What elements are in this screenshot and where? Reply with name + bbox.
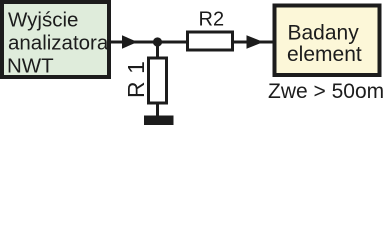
wire from node down to R1 [156,42,159,58]
wire from R1 to ground [156,103,159,117]
svg-text:Zwe > 50om: Zwe > 50om [268,80,384,103]
svg-text:R1: R1 [123,54,149,98]
svg-text:Badany: Badany [288,22,360,45]
svg-text:analizatora: analizatora [8,32,109,55]
resistor R2 [188,32,233,50]
arrow head on output wire [247,35,264,48]
load block: Badany element [275,6,380,76]
svg-text:element: element [287,43,362,66]
svg-text:NWT: NWT [7,55,54,78]
wire from source to R2 [111,41,186,44]
wire from R2 to load [234,41,273,44]
node junction dot [153,37,162,46]
svg-text:Wyjście: Wyjście [8,9,78,32]
source block: Wyjście analizatora NWT [2,2,109,78]
resistor R1 [149,58,167,103]
svg-text:R2: R2 [199,9,225,31]
arrow head on input wire [122,35,138,48]
ground [144,116,174,126]
